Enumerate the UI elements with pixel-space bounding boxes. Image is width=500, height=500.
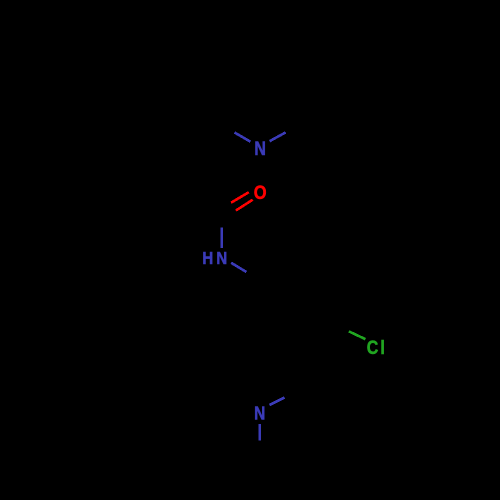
svg-text:N: N <box>254 138 266 160</box>
wire: bond N1-C8 half (upper-right of top N) <box>270 132 286 141</box>
svg-text:C: C <box>367 336 379 358</box>
svg-text:N: N <box>216 249 227 268</box>
svg-text:O: O <box>254 181 267 203</box>
wire: bond C2=N1 half (upper-left of top N) <box>235 133 251 142</box>
wire: CH2-N half-bond (up-right of bottom N) <box>270 398 285 406</box>
wire: N-CH3 vertical half-bond (below bottom N) <box>259 424 262 440</box>
wire: amide N-C(=O) vertical half-bond <box>220 227 223 247</box>
wire: N-aryl half-bond (down-right from HN) <box>231 263 246 272</box>
wire: C=O double bond lower half (red) <box>236 200 253 211</box>
wire: C-Cl half-bond (green) <box>349 331 366 339</box>
svg-text:H: H <box>202 249 213 268</box>
svg-text:l: l <box>380 336 384 358</box>
svg-text:N: N <box>254 403 265 424</box>
wire: C=O double bond upper half (red) <box>231 192 249 203</box>
